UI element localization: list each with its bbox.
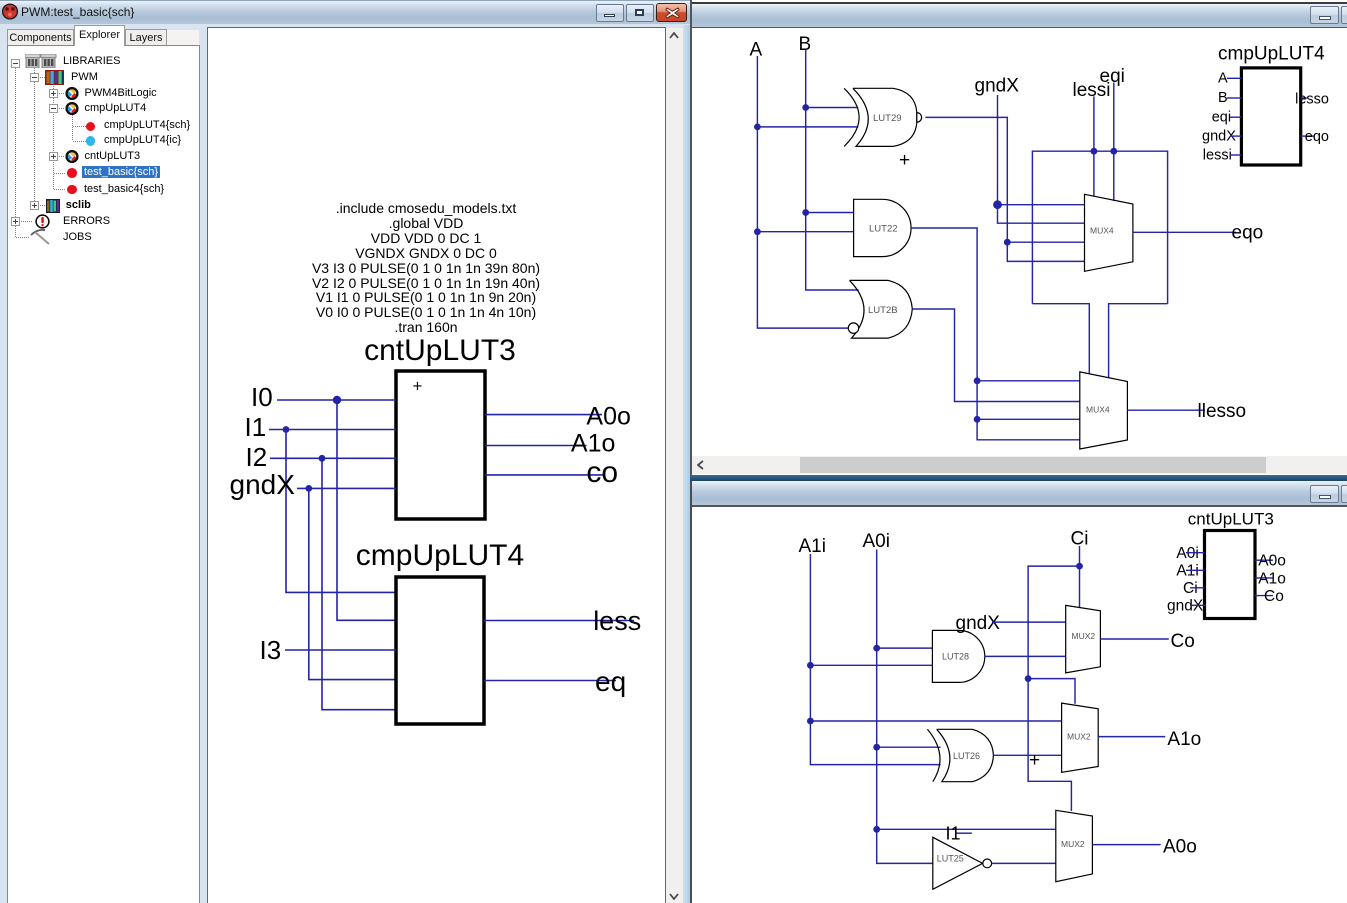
svg-text:LUT25: LUT25 [937, 854, 964, 864]
svg-text:I1: I1 [245, 412, 267, 442]
svg-text:A: A [750, 40, 763, 61]
wire LUT29 output to MUX4 U3 inputs [925, 117, 1007, 242]
junction A1i at MUX2 U6 branch [807, 718, 814, 725]
svg-text:MUX4: MUX4 [1086, 405, 1110, 415]
junction I0 [333, 396, 341, 404]
pin Co [1255, 595, 1273, 597]
svg-text:A1o: A1o [1167, 729, 1201, 750]
wire U7 output A0o [1092, 844, 1160, 846]
cell group icon: PWM4BitLogic [65, 87, 79, 100]
svg-text:MUX2: MUX2 [1067, 732, 1091, 742]
svg-text:A0i: A0i [863, 531, 890, 552]
wire output A0o [485, 414, 602, 416]
PWM library icon [45, 70, 64, 85]
svg-text:less: less [593, 606, 641, 636]
svg-text:A0o: A0o [586, 402, 630, 430]
junction A0i at LUT26 branch [873, 744, 880, 751]
svg-text:V3 I3 0 PULSE(0 1 0 1n 1n 39n: V3 I3 0 PULSE(0 1 0 1n 1n 39n 80n) [312, 260, 540, 276]
pin A1o [1255, 577, 1273, 579]
wire gndX to U3 in1 [998, 204, 1085, 206]
junction LUT22 out at U4 in1 [974, 377, 981, 384]
junction eqi on loop [1110, 148, 1117, 155]
sclib library icon [46, 199, 60, 213]
svg-text:gndX: gndX [230, 469, 296, 500]
svg-text:LUT26: LUT26 [953, 751, 980, 761]
svg-text:LUT2B: LUT2B [868, 305, 898, 316]
window buttons [596, 4, 624, 22]
svg-text:eqi: eqi [1212, 110, 1231, 126]
svg-text:B: B [799, 34, 812, 55]
wire LUT25 output to U7 in2 [992, 862, 1056, 864]
junction I2 [319, 455, 326, 462]
wire loop bottom right to U4 select2 [1109, 304, 1168, 379]
instance box U1 cntUpLUT3 [396, 371, 485, 519]
svg-text:eq: eq [595, 666, 626, 697]
wire net A1i vertical [810, 554, 940, 765]
wire net A0i vertical [877, 550, 933, 864]
wire LUT22 output to MUX4 U4 inputs [911, 228, 1080, 440]
cell group icon: cmpUpLUT4 [65, 102, 79, 115]
wire A0i to U7 in1 [877, 828, 1056, 830]
xor gate LUT26 [927, 729, 993, 781]
svg-text:llesso: llesso [1198, 401, 1247, 422]
svg-text:V0 I0 0 PULSE(0 1 0 1n 1n 4n 1: V0 I0 0 PULSE(0 1 0 1n 1n 4n 10n) [316, 304, 536, 320]
wire A to LUT22 input [757, 231, 853, 233]
wire to U4 in3 [977, 418, 1080, 420]
svg-text:A1i: A1i [799, 536, 826, 557]
svg-text:MUX4: MUX4 [1090, 226, 1114, 236]
junction LUT22 out at U4 in3 [974, 416, 981, 423]
symbol box cmpUpLUT4 [1241, 68, 1300, 165]
wire B to LUT22 input [806, 212, 854, 214]
svg-text:V1 I1 0 PULSE(0 1 0 1n 1n 9n 2: V1 I1 0 PULSE(0 1 0 1n 1n 9n 20n) [316, 289, 536, 305]
symbol box cntUpLUT3 [1205, 531, 1256, 619]
wire I0 to U1 [277, 399, 396, 401]
wire net A vertical [757, 56, 848, 328]
wire output A1o [485, 445, 587, 447]
svg-text:eqo: eqo [1232, 223, 1264, 244]
instance box U2 cmpUpLUT4 [396, 577, 484, 724]
svg-text:A1o: A1o [1258, 570, 1286, 587]
svg-text:LUT28: LUT28 [942, 652, 969, 662]
wire to U3 in3 [1007, 241, 1084, 243]
junction Ci [1076, 563, 1083, 570]
tree connector dotted lines [15, 68, 16, 238]
wire A0i to LUT28 input [877, 647, 933, 649]
svg-text:Co: Co [1171, 631, 1195, 652]
svg-text:gndX: gndX [975, 76, 1020, 97]
JOBS icon (pickaxe) [29, 228, 53, 246]
svg-text:I0: I0 [251, 382, 273, 412]
ERRORS icon [35, 214, 50, 229]
wire output eq [484, 680, 616, 682]
junction A0i at LUT28 branch [873, 645, 880, 652]
pin A0o [1255, 559, 1273, 561]
wire B to LUT29 input [806, 107, 859, 109]
svg-text:A0o: A0o [1258, 553, 1286, 570]
svg-text:lesso: lesso [1295, 92, 1329, 108]
wire A to LUT29 input [757, 126, 858, 128]
wire gndX to U3 in2 [998, 205, 1085, 224]
wire Ci branch left and down [1028, 566, 1079, 811]
wire I1 branch down to U2 [286, 430, 396, 593]
cell group icon: cntUpLUT3 [65, 150, 79, 163]
svg-text:MUX2: MUX2 [1072, 631, 1096, 641]
red dot: test_basic4{sch} [67, 185, 77, 195]
svg-text:Ci: Ci [1183, 580, 1198, 597]
app icon [2, 3, 18, 20]
and gate LUT22 [854, 199, 911, 256]
wire A1i to LUT28 input [810, 664, 932, 666]
wire gndX vertical [997, 95, 999, 205]
wire LUT26 output to U6 in2 [993, 754, 1061, 756]
pin lesso [1301, 97, 1307, 99]
wire Ci to U6 select [1028, 679, 1075, 704]
mux U6 MUX2 [1062, 703, 1099, 772]
svg-text:cntUpLUT3: cntUpLUT3 [1188, 509, 1274, 528]
svg-text:A: A [1218, 70, 1228, 86]
svg-text:lessi: lessi [1203, 147, 1232, 163]
wire gndX to U5 in1 [992, 621, 1066, 623]
or gate LUT2B [848, 280, 912, 338]
mux U3 MUX4 [1085, 194, 1133, 271]
wire LUT28 output to U5 in2 [985, 655, 1066, 657]
left canvas [207, 27, 666, 903]
svg-text:+: + [413, 377, 423, 396]
junction I1 [283, 426, 290, 433]
svg-text:Co: Co [1264, 588, 1284, 605]
tabs [7, 29, 74, 45]
junction A at LUT29 branch [754, 124, 761, 131]
svg-text:cntUpLUT3: cntUpLUT3 [364, 334, 516, 367]
wire A0i to LUT26 input [877, 746, 941, 748]
wire output less [484, 620, 634, 622]
red dot: test_basic{sch} selected [67, 168, 77, 178]
mux U7 MUX2 [1056, 810, 1093, 881]
mux U4 MUX4 [1080, 372, 1128, 449]
wire lessi vertical to U3 select [1093, 96, 1095, 196]
wire output co [485, 474, 604, 476]
svg-text:LUT29: LUT29 [873, 113, 902, 124]
svg-text:I2: I2 [246, 442, 268, 472]
wire U3 output eqo [1133, 231, 1236, 233]
junction LUT29 out at in3 [1004, 239, 1011, 246]
junction A at LUT22 branch [754, 228, 761, 235]
svg-text:.include cmosedu_models.txt: .include cmosedu_models.txt [336, 200, 517, 216]
wire to U3 in4 [1007, 242, 1084, 261]
h scrollbar [692, 456, 1347, 474]
svg-text:cmpUpLUT4: cmpUpLUT4 [1218, 44, 1325, 65]
svg-text:A1i: A1i [1176, 563, 1198, 580]
svg-text:A0i: A0i [1176, 545, 1198, 562]
svg-text:LUT22: LUT22 [869, 223, 898, 234]
svg-text:eqi: eqi [1100, 66, 1125, 87]
svg-text:gndX: gndX [1167, 598, 1204, 615]
red dot: cmpUpLUT4{sch} [86, 122, 95, 131]
svg-text:co: co [586, 456, 618, 489]
junction B at LUT22 branch [802, 209, 809, 216]
wire net B vertical [806, 50, 859, 290]
svg-text:I3: I3 [260, 635, 282, 665]
junction gndX [305, 485, 312, 492]
wire net Ci vertical to U5 select [1079, 546, 1081, 607]
LIBRARIES icon [25, 54, 57, 68]
wire I0 branch down to U2 [337, 400, 396, 620]
left canvas scrollbar [666, 28, 683, 903]
wire I2 branch down to U2 [322, 458, 396, 709]
svg-text:.global VDD: .global VDD [389, 215, 464, 231]
junction A0i at MUX2 U7 branch [873, 826, 880, 833]
wire eqi vertical to U3 select [1113, 83, 1115, 201]
junction Ci at U6 select branch [1025, 675, 1032, 682]
wire I3 to U2 [285, 649, 396, 651]
svg-text:+: + [899, 150, 910, 171]
glass edge [683, 25, 690, 903]
and gate LUT28 [932, 630, 984, 682]
junction lessi on loop [1091, 148, 1098, 155]
junction gndX [993, 200, 1002, 209]
svg-text:eqo: eqo [1305, 129, 1329, 145]
cyan dot: cmpUpLUT4{ic} [86, 136, 95, 145]
svg-text:A0o: A0o [1163, 837, 1197, 858]
svg-text:VGNDX GNDX 0 DC 0: VGNDX GNDX 0 DC 0 [355, 245, 497, 261]
svg-text:.tran 160n: .tran 160n [394, 319, 457, 335]
junction A1i at LUT28 branch [807, 662, 814, 669]
wire I2 to U1 [270, 457, 396, 459]
wire LUT2B output to MUX4 U4 in2 [912, 309, 1080, 402]
wire gndX branch down to U2 [309, 488, 396, 679]
svg-text:MUX2: MUX2 [1061, 839, 1085, 849]
wire I1 to U1 [269, 429, 396, 431]
svg-text:cmpUpLUT4: cmpUpLUT4 [356, 539, 524, 572]
svg-text:VDD VDD 0 DC 1: VDD VDD 0 DC 1 [371, 230, 482, 246]
spice deck text [312, 200, 540, 335]
inverter LUT25 [933, 837, 992, 889]
wire U5 output Co [1100, 638, 1168, 640]
wire select loop top and sides [1032, 151, 1167, 304]
expand/collapse boxes [11, 59, 20, 68]
svg-text:+: + [1029, 750, 1040, 771]
wire loop bottom left to U4 select1 [1032, 304, 1089, 374]
xnor gate LUT29 [844, 88, 922, 146]
stub I1 [956, 832, 972, 834]
wire U4 output llesso [1127, 409, 1205, 411]
wire gndX to U1 [297, 487, 396, 489]
wire to U4 in1 [977, 380, 1080, 382]
mux U5 MUX2 [1066, 605, 1101, 673]
svg-text:A1o: A1o [571, 430, 615, 458]
tree panel [7, 45, 200, 903]
junction B at LUT29 branch [802, 104, 809, 111]
wire A1i to U6 in1 [810, 720, 1061, 722]
svg-text:B: B [1218, 90, 1228, 106]
pin eqo [1301, 135, 1314, 137]
wire U6 output A1o [1098, 736, 1165, 738]
